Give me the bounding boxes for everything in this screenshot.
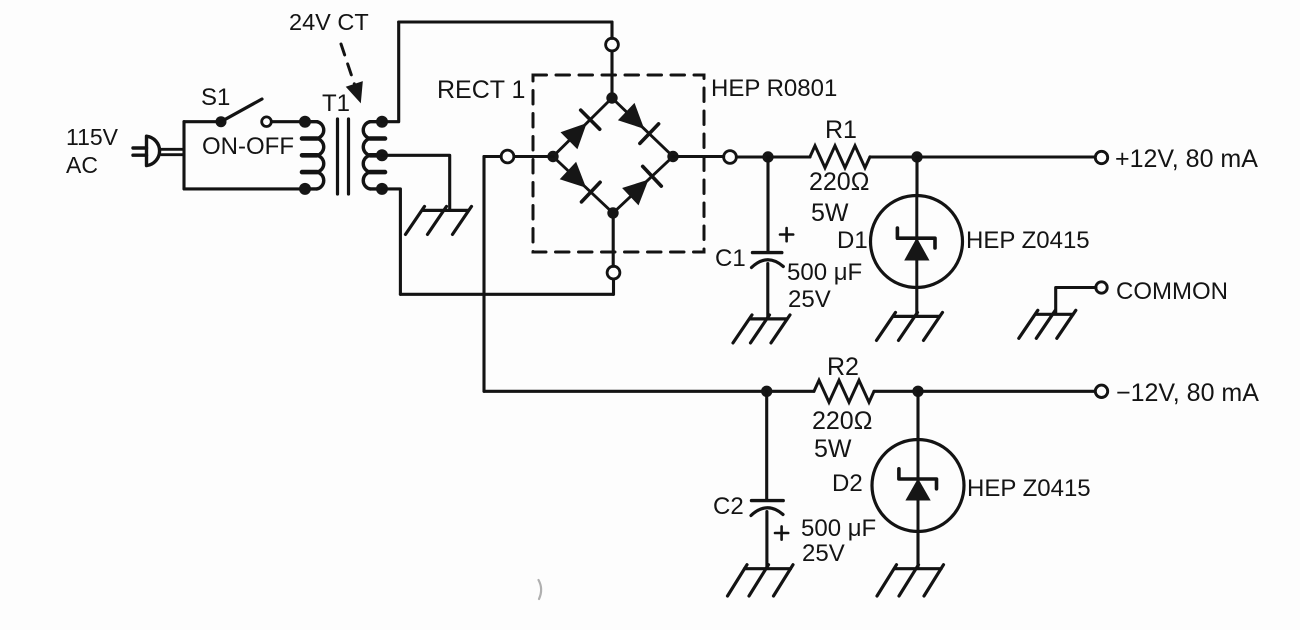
label 25V (C2) bbox=[802, 540, 845, 567]
node: bridge bottom bbox=[607, 207, 618, 218]
terminal: bridge AC top bbox=[606, 38, 619, 51]
wire: switch to transformer bbox=[272, 120, 306, 123]
wire: center tap to ground bbox=[382, 155, 450, 209]
svg-text:25V: 25V bbox=[802, 540, 845, 567]
node D (D2 / -12V junction) bbox=[912, 386, 923, 397]
svg-text:R1: R1 bbox=[825, 116, 857, 144]
wire: terminal to bridge top node bbox=[610, 51, 613, 98]
svg-text:+12V, 80 mA: +12V, 80 mA bbox=[1115, 145, 1258, 173]
wire: terminal to node A bbox=[736, 155, 768, 158]
ground (T1 center tap) bbox=[406, 206, 472, 234]
svg-text:D2: D2 bbox=[832, 470, 863, 497]
wire: COMMON stub bbox=[1056, 288, 1096, 314]
svg-text:−12V, 80 mA: −12V, 80 mA bbox=[1116, 379, 1259, 407]
label HEP Z0415 (D2) bbox=[967, 475, 1091, 502]
bridge diamond wires bbox=[553, 98, 673, 213]
label S1 bbox=[201, 84, 230, 111]
svg-text:5W: 5W bbox=[814, 435, 852, 463]
node B (D1 / +12V junction) bbox=[911, 151, 922, 162]
label ON-OFF bbox=[202, 133, 294, 160]
label +12V, 80 mA bbox=[1115, 145, 1258, 173]
label 220ohm bbox=[809, 168, 869, 196]
label 220ohm (R2) bbox=[812, 407, 872, 435]
svg-text:500 μF: 500 μF bbox=[787, 259, 862, 286]
wire: D2 top lead bbox=[916, 391, 919, 439]
wire: minus drop vertical bbox=[482, 157, 485, 392]
svg-text:RECT 1: RECT 1 bbox=[437, 76, 525, 104]
wire: top rail drop to bridge bbox=[610, 22, 613, 38]
wire: node A to R1 bbox=[768, 155, 810, 158]
svg-text:S1: S1 bbox=[201, 84, 230, 111]
label D1 bbox=[837, 227, 868, 254]
resistor R2 bbox=[814, 380, 874, 402]
svg-text:HEP Z0415: HEP Z0415 bbox=[966, 227, 1090, 254]
svg-text:HEP R0801: HEP R0801 bbox=[711, 75, 837, 102]
wire: lower AC run up to bridge bottom terminal bbox=[612, 279, 615, 294]
wire: primary loop left vertical bbox=[182, 122, 185, 189]
label 5W bbox=[811, 199, 849, 227]
transformer T1 core bbox=[338, 119, 349, 194]
label 115V AC bbox=[66, 124, 119, 178]
node: bridge top bbox=[606, 92, 617, 103]
rectifier RECT 1 dashed module box bbox=[533, 75, 704, 252]
label 500uF bbox=[787, 259, 862, 286]
wire: D1 bottom lead bbox=[915, 287, 918, 315]
label 24V CT bbox=[289, 9, 369, 35]
svg-text:220Ω: 220Ω bbox=[809, 168, 869, 196]
svg-text:115V: 115V bbox=[66, 124, 119, 150]
terminal +12V bbox=[1095, 151, 1107, 163]
node: bridge left bbox=[547, 151, 558, 162]
wire: bridge left node out bbox=[514, 155, 553, 158]
ground (C2) bbox=[728, 565, 794, 596]
svg-text:5W: 5W bbox=[811, 199, 849, 227]
svg-text:C1: C1 bbox=[715, 245, 746, 272]
wire: C2 bottom lead bbox=[765, 512, 768, 568]
wire: primary bottom bbox=[184, 187, 305, 190]
svg-text:T1: T1 bbox=[322, 90, 350, 117]
wire: R1 to node B bbox=[870, 155, 917, 158]
wire: -12V rail left of R2 bbox=[484, 390, 814, 393]
capacitor C2 bbox=[751, 501, 788, 540]
svg-text:COMMON: COMMON bbox=[1116, 278, 1228, 305]
label R1 bbox=[825, 116, 857, 144]
wire: node D to -12V terminal bbox=[918, 390, 1095, 393]
svg-text:ON-OFF: ON-OFF bbox=[202, 133, 294, 160]
wire: lower AC run bbox=[400, 293, 613, 296]
label C1 bbox=[715, 245, 746, 272]
ground (C1) bbox=[733, 315, 790, 343]
node: bridge right bbox=[667, 151, 678, 162]
terminal: bridge AC bottom bbox=[607, 266, 620, 279]
resistor R1 bbox=[810, 146, 870, 168]
scan artifact bbox=[539, 580, 542, 599]
wire: D1 top lead bbox=[915, 157, 918, 196]
label C2 bbox=[713, 493, 744, 520]
svg-text:C2: C2 bbox=[713, 493, 744, 520]
wire: terminal to minus drop bbox=[484, 155, 501, 158]
diode D-BL bbox=[560, 162, 600, 202]
svg-text:500 μF: 500 μF bbox=[801, 515, 876, 542]
zener D1 bbox=[871, 196, 963, 288]
wire: C1 top lead bbox=[766, 157, 769, 251]
wire: R2 to node D bbox=[874, 390, 918, 393]
svg-text:24V CT: 24V CT bbox=[289, 9, 369, 35]
diode D-TR bbox=[618, 103, 659, 143]
wire: secondary top to top rail bbox=[382, 22, 399, 122]
svg-text:25V: 25V bbox=[788, 286, 831, 313]
label -12V, 80 mA bbox=[1116, 379, 1259, 407]
wire: C2 top lead bbox=[765, 391, 768, 500]
label R2 bbox=[827, 353, 859, 381]
label 500uF (C2) bbox=[801, 515, 876, 542]
transformer T1 primary winding bbox=[299, 116, 324, 195]
terminal COMMON bbox=[1096, 282, 1107, 293]
label 5W (R2) bbox=[814, 435, 852, 463]
wire: primary top (plug to switch) bbox=[184, 120, 221, 123]
label COMMON bbox=[1116, 278, 1228, 305]
label HEP R0801 bbox=[711, 75, 837, 102]
label HEP Z0415 (D1) bbox=[966, 227, 1090, 254]
plug P1 bbox=[133, 136, 184, 165]
node A (C1 / R1 junction) bbox=[762, 151, 773, 162]
ground (D2) bbox=[877, 565, 944, 596]
terminal: bridge plus output bbox=[724, 151, 737, 164]
wire: top rail bbox=[399, 20, 612, 23]
svg-text:220Ω: 220Ω bbox=[812, 407, 872, 435]
wire: secondary bottom to lower AC run bbox=[382, 189, 400, 294]
svg-text:AC: AC bbox=[66, 152, 98, 178]
diode D-TL bbox=[561, 110, 600, 149]
svg-text:HEP Z0415: HEP Z0415 bbox=[967, 475, 1091, 502]
arrow 24V CT pointer bbox=[341, 44, 362, 101]
wire: D2 bottom lead bbox=[916, 531, 919, 567]
switch S1 bbox=[216, 99, 272, 127]
label 25V bbox=[788, 286, 831, 313]
node C (C2 junction) bbox=[761, 386, 772, 397]
svg-text:D1: D1 bbox=[837, 227, 868, 254]
label T1 bbox=[322, 90, 350, 117]
ground (COMMON) bbox=[1019, 310, 1076, 338]
terminal: bridge minus output bbox=[501, 150, 514, 163]
wire: terminal to bridge bottom node bbox=[612, 213, 615, 266]
label RECT 1 bbox=[437, 76, 525, 104]
label D2 bbox=[832, 470, 863, 497]
wire: bridge right node out bbox=[673, 155, 724, 159]
capacitor C1 bbox=[752, 228, 794, 268]
diode D-BR bbox=[622, 166, 661, 205]
svg-text:R2: R2 bbox=[827, 353, 859, 381]
wire: C1 bottom lead bbox=[766, 264, 769, 319]
zener D2 bbox=[872, 440, 964, 532]
transformer T1 secondary winding bbox=[363, 116, 388, 195]
ground (D1) bbox=[877, 312, 943, 340]
terminal -12V bbox=[1095, 385, 1107, 397]
wire: node B to +12V terminal bbox=[917, 155, 1095, 158]
